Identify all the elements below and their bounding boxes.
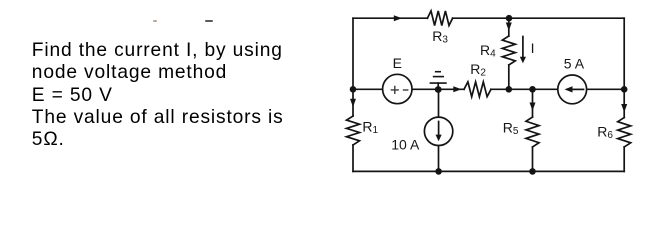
svg-text:10 A: 10 A xyxy=(391,136,420,152)
svg-text:R3: R3 xyxy=(432,28,448,46)
svg-text:E: E xyxy=(393,55,402,71)
svg-text:R5: R5 xyxy=(503,120,519,138)
svg-text:R2: R2 xyxy=(470,61,486,79)
svg-text:5 A: 5 A xyxy=(564,55,585,71)
svg-text:R1: R1 xyxy=(362,118,378,136)
svg-text:R6: R6 xyxy=(597,123,613,141)
svg-text:I: I xyxy=(531,40,535,56)
svg-text:R4: R4 xyxy=(480,42,496,60)
